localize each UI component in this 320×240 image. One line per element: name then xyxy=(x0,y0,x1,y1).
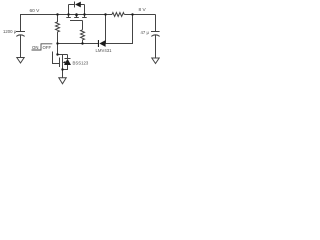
diode D2 triangle (points up) xyxy=(64,59,71,65)
transistor Q1 PMOS: gate bar xyxy=(70,20,83,22)
wire: top rail left segment 60V xyxy=(20,14,112,16)
transistor Q2 BSS123: drain stub xyxy=(62,55,64,58)
ground arrow (output) xyxy=(152,58,159,64)
svg-text:LMV431: LMV431 xyxy=(96,48,113,53)
ground arrow (Q2 source) xyxy=(59,78,66,84)
svg-text:OFF: OFF xyxy=(43,45,52,50)
transistor Q2 BSS123: channel bar xyxy=(62,58,64,68)
capacitor C1 1200u top plate xyxy=(16,31,25,33)
ON/OFF logic level step line xyxy=(32,44,53,50)
transistor Q1 PMOS: drain stub up-right xyxy=(84,5,86,15)
node dot: LMV431 tap on rail xyxy=(104,13,106,15)
wire: input corner down to C1 xyxy=(20,15,22,32)
node dot: Q1 body tie on rail xyxy=(75,13,77,15)
svg-text:1200 μ: 1200 μ xyxy=(3,29,17,34)
transistor Q1 body arrow (down) xyxy=(75,15,78,18)
capacitor C1 1200u curved plate xyxy=(16,35,24,37)
node dot: Q2 drain junction xyxy=(56,53,58,55)
wire: ON/OFF signal to Q2 gate xyxy=(53,52,60,64)
node dot: Q1 drain on rail xyxy=(83,13,85,15)
svg-text:47 μ: 47 μ xyxy=(141,30,150,35)
diode LMV431 triangle (points left) xyxy=(99,40,105,47)
svg-text:BSS123: BSS123 xyxy=(73,61,89,66)
wire: LMV431 anode to 8V sense, up to rail xyxy=(106,15,133,44)
capacitor C2 47u curved plate xyxy=(151,35,159,37)
diode D2 cathode bar xyxy=(65,58,71,60)
svg-text:8 V: 8 V xyxy=(139,7,147,13)
node dot: 8V sense on rail xyxy=(131,13,133,15)
node dot: R1 top on rail xyxy=(56,13,58,15)
node dot: Q2 source junction xyxy=(61,68,63,70)
svg-text:ON: ON xyxy=(32,45,38,50)
capacitor C2 47u top plate xyxy=(151,31,160,33)
diode D1 cathode bar xyxy=(74,2,76,8)
diode D2 anode wire down and to source xyxy=(63,65,68,70)
resistor R2 (gate pulldown, vertical) xyxy=(81,30,85,43)
node dot: R2 bottom gate node xyxy=(81,42,83,44)
wire: 8V rail corner down to C2 xyxy=(155,15,157,32)
wire: C1 to ground xyxy=(20,35,22,57)
wire: rail tap down to LMV431 anode xyxy=(105,15,107,44)
wire: Q1 gate lead down to R2 xyxy=(82,21,84,30)
wire: gate node horizontal to LMV431 xyxy=(58,43,99,45)
diode D1 body diode wire xyxy=(69,4,85,6)
transistor Q1 PMOS: source stub up-left xyxy=(68,5,70,15)
transistor Q1 PMOS: source/drain stubs below rail xyxy=(69,15,85,18)
transistor Q1 PMOS: channel contact bars xyxy=(66,17,86,19)
resistor R1 (vertical from 60V rail) xyxy=(56,15,60,44)
ground arrow (input) xyxy=(17,58,24,64)
svg-text:60 V: 60 V xyxy=(30,8,41,14)
diode D1 triangle xyxy=(75,2,81,8)
wire: C2 to ground xyxy=(155,35,157,58)
regulator U1 LMV431 cathode bar xyxy=(98,40,99,47)
wire: top rail right segment 8V xyxy=(124,14,155,16)
wire: gate node down to Q2 drain xyxy=(58,44,68,55)
node dot: Q1 source on rail xyxy=(67,13,69,15)
transistor Q2 body arrow (left) xyxy=(63,61,66,64)
transistor Q2 BSS123: gate bar xyxy=(59,58,61,68)
wire: Q2 source to ground xyxy=(62,67,64,78)
node dot: R1 bottom gate node xyxy=(56,42,58,44)
resistor R3 (series output resistor, horizontal) xyxy=(112,13,124,17)
diode D2 body diode: cathode drop xyxy=(67,55,69,59)
